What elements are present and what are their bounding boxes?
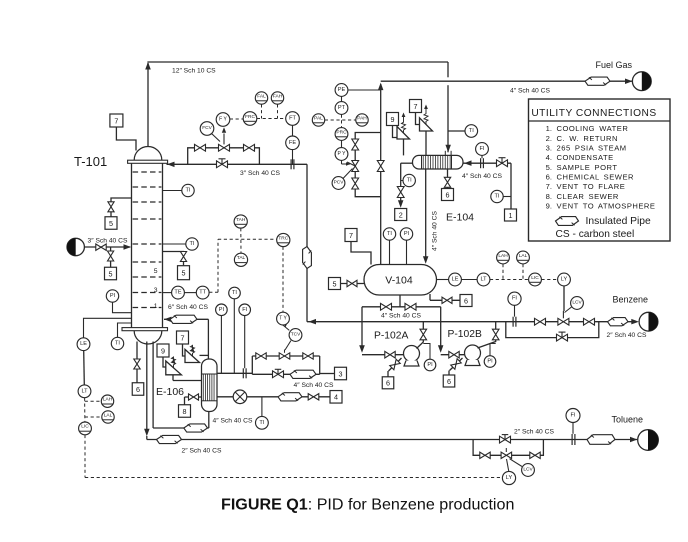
control valve TCV <box>279 341 291 360</box>
svg-text:PE: PE <box>338 87 346 93</box>
check valve pump B <box>492 329 499 340</box>
valve pump B drain <box>451 359 461 369</box>
legend insulated pipe symbol <box>556 217 579 226</box>
E-106 shell drain wire <box>185 397 202 405</box>
svg-text:FRC: FRC <box>245 114 255 120</box>
utility square 6 pump A <box>382 377 394 389</box>
V-104 drain wire <box>430 294 460 300</box>
globe valve steam bypass <box>273 369 284 377</box>
sample square 5 mid <box>178 266 190 280</box>
wire from square 7 to column top <box>116 127 136 151</box>
svg-text:P-102A: P-102A <box>374 330 408 341</box>
instrument PAH <box>356 114 368 126</box>
insulated pipe symbol condensate <box>278 393 302 401</box>
svg-text:5: 5 <box>154 268 158 275</box>
svg-text:C. W. RETURN: C. W. RETURN <box>557 134 619 143</box>
column T-101 vent riser wire <box>145 62 151 147</box>
instrument LY toluene <box>507 459 509 471</box>
svg-text:8: 8 <box>183 407 187 416</box>
svg-text:LAH: LAH <box>103 397 113 403</box>
svg-text:SAMPLE PORT: SAMPLE PORT <box>557 163 618 172</box>
instrument LAL column <box>102 411 114 423</box>
svg-text:4″ Sch 40 CS: 4″ Sch 40 CS <box>213 418 253 425</box>
utility square 6 pump B <box>443 375 455 387</box>
svg-text:9.: 9. <box>546 201 552 210</box>
lower sample wire <box>110 247 112 267</box>
svg-text:PT: PT <box>338 105 346 111</box>
instrument PI pump B <box>490 344 496 356</box>
svg-text:TCV: TCV <box>291 332 301 338</box>
instrument TRC <box>277 233 290 246</box>
pump B drain wire <box>449 358 463 375</box>
signal dashed LIC-LY V-104 <box>541 279 557 281</box>
instrument TI V-104 <box>389 240 391 264</box>
valve pump B suction <box>449 351 459 358</box>
svg-text:TI: TI <box>387 231 392 237</box>
svg-text:1.: 1. <box>546 124 552 133</box>
svg-text:FE: FE <box>289 140 296 146</box>
control valve FCV on bypass <box>219 134 230 152</box>
orifice benzene FI <box>513 317 516 327</box>
PSV square 9 at E-104 <box>387 113 399 126</box>
svg-text:1: 1 <box>154 303 158 310</box>
gate valve on PCV main vertical <box>377 161 384 172</box>
gate valve suction B header <box>405 303 416 310</box>
svg-text:12″ Sch 10 CS: 12″ Sch 10 CS <box>172 68 216 75</box>
toluene bypass wire <box>473 440 543 456</box>
gate valve bypass right <box>244 144 255 151</box>
svg-text:3″ Sch 40 CS: 3″ Sch 40 CS <box>240 170 280 177</box>
utility square 7 V-104 flare <box>345 229 357 242</box>
svg-text:2.: 2. <box>546 134 552 143</box>
svg-text:6: 6 <box>447 377 451 386</box>
insulated pipe symbol steam <box>290 370 316 378</box>
insulated pipe symbol benzene <box>608 318 629 326</box>
reflux riser wire <box>306 164 308 321</box>
PSV 7 inlet wire <box>425 131 427 155</box>
svg-text:4″ Sch 40 CS: 4″ Sch 40 CS <box>462 173 502 180</box>
svg-text:6: 6 <box>386 379 390 388</box>
mid sample wire <box>163 252 184 266</box>
valve column drain <box>134 359 140 369</box>
nozzle flange at E-104 vapor inlet <box>445 151 451 156</box>
svg-text:FI: FI <box>242 307 247 313</box>
svg-text:CLEAR SEWER: CLEAR SEWER <box>557 192 619 201</box>
svg-text:LE: LE <box>452 277 459 283</box>
svg-text:Benzene: Benzene <box>613 294 649 304</box>
feed line wire <box>84 244 131 250</box>
svg-text:FAL: FAL <box>257 93 266 99</box>
wire square5 to V-104 <box>341 283 365 285</box>
svg-text:V-104: V-104 <box>385 274 413 286</box>
svg-text:TE: TE <box>174 290 181 296</box>
instrument TI column upper <box>163 190 182 192</box>
svg-text:PAL: PAL <box>314 115 323 121</box>
vessel V-104 <box>364 265 437 296</box>
instrument LE column <box>84 318 132 338</box>
instrument TI steam <box>233 299 235 374</box>
cw riser to utility 1 wire <box>503 163 511 209</box>
svg-text:6: 6 <box>446 190 450 199</box>
svg-text:T Y: T Y <box>279 316 287 322</box>
vapor return to column wire <box>164 317 208 323</box>
cooling water inlet wire <box>464 160 512 166</box>
svg-text:LE: LE <box>80 341 87 347</box>
svg-text:Fuel Gas: Fuel Gas <box>596 60 633 70</box>
signal dashed to LAL <box>85 416 102 418</box>
V-104 bottom outlet wire <box>362 295 441 307</box>
pump A drain wire <box>388 358 402 377</box>
gate valve feed <box>96 244 106 250</box>
svg-text:LAL: LAL <box>104 412 113 418</box>
svg-text:TAL: TAL <box>237 255 246 261</box>
wire LY to LCV benzene <box>563 286 565 311</box>
instrument TI condensate <box>256 416 269 429</box>
svg-text:TI: TI <box>232 290 237 296</box>
gate valve cw inlet <box>497 158 508 167</box>
svg-text:3.: 3. <box>546 144 552 153</box>
instrument FT <box>286 112 300 126</box>
column bottom drain wire <box>136 342 138 384</box>
pump P-102B <box>465 345 481 366</box>
instrument PY <box>341 140 343 147</box>
PSV square 9 at E-106 <box>157 344 169 357</box>
condensate to V-104 wire <box>423 169 429 264</box>
instrument FCV <box>211 133 220 142</box>
svg-text:Toluene: Toluene <box>612 415 644 425</box>
instrument TI column bottom <box>118 323 132 337</box>
pump A suction drop wire <box>359 307 365 353</box>
instrument LT column <box>78 385 91 398</box>
E-106 vapor return riser wire <box>207 319 209 359</box>
instrument PI pump A <box>423 344 430 360</box>
gate valve PCV loop upper <box>352 139 359 150</box>
instrument TY <box>283 323 289 331</box>
PCV let-down main vertical wire <box>380 84 382 265</box>
valve lower sample <box>108 251 114 261</box>
column T-101 bottom dome <box>134 331 162 344</box>
insulated pipe symbol vapor return <box>170 315 197 323</box>
valve V-104 drain <box>442 297 452 303</box>
svg-text:4: 4 <box>334 393 338 402</box>
svg-text:LCV: LCV <box>572 300 582 306</box>
valve mid sample <box>180 252 186 262</box>
steam station loop wire <box>252 356 334 374</box>
instrument PI column left <box>113 302 132 313</box>
instrument TT <box>196 286 209 299</box>
instrument FRC <box>243 112 257 126</box>
column T-101 bottom flange <box>122 328 168 331</box>
valve on E-104 drain <box>444 177 450 187</box>
signal dashed TAH-TAL <box>240 228 242 253</box>
instrument LAH V-104 <box>497 251 510 264</box>
svg-text:6: 6 <box>136 385 140 394</box>
signal dashed FY-FRC <box>230 118 243 120</box>
PSV square 7 at E-104 <box>410 100 422 113</box>
gate valve steam upper left <box>256 353 266 359</box>
svg-text:5: 5 <box>109 219 113 228</box>
svg-text:TI: TI <box>190 241 195 247</box>
svg-text:7: 7 <box>414 102 418 111</box>
svg-text:1: 1 <box>509 211 513 220</box>
svg-text:PI: PI <box>487 359 493 365</box>
signal dashed FAH drop <box>277 104 279 118</box>
svg-text:VENT TO FLARE: VENT TO FLARE <box>557 182 626 191</box>
instrument TI cw return <box>403 174 415 186</box>
battery limit fuel gas <box>632 72 651 91</box>
svg-text:PI: PI <box>427 362 433 368</box>
instrument LIC V-104 <box>529 273 542 286</box>
svg-text:265 PSIA STEAM: 265 PSIA STEAM <box>557 144 627 153</box>
svg-text:TI: TI <box>259 420 264 426</box>
svg-text:E-106: E-106 <box>156 386 184 398</box>
svg-text:LCV: LCV <box>523 467 533 473</box>
gate valve steam upper right <box>303 353 313 359</box>
check valve pump A <box>420 329 427 340</box>
PSV 9 inlet wire <box>403 139 405 155</box>
gate valve toluene bypass right <box>530 452 540 458</box>
svg-text:4″ Sch 40 CS: 4″ Sch 40 CS <box>381 312 421 319</box>
PSV square 7 at E-106 <box>177 331 189 344</box>
svg-text:2″ Sch 40 CS: 2″ Sch 40 CS <box>182 447 222 454</box>
instrument PT <box>341 96 343 101</box>
instrument FY <box>216 113 230 127</box>
instrument FI cooling water <box>481 155 483 158</box>
svg-text:4″ Sch 40 CS: 4″ Sch 40 CS <box>294 382 334 389</box>
svg-text:3: 3 <box>339 369 343 378</box>
instrument LAH column <box>101 395 113 407</box>
instrument PE <box>348 89 381 91</box>
gate valve benzene 2 <box>584 318 595 325</box>
instrument PAL <box>312 114 324 126</box>
svg-text:TRC: TRC <box>278 235 288 241</box>
pump B suction drop wire <box>438 307 444 353</box>
svg-text:LIC: LIC <box>81 424 89 430</box>
column T-101 shell <box>132 162 163 330</box>
instrument TI cw supply <box>491 190 503 202</box>
utility square 1 <box>505 209 517 221</box>
valve upper sample <box>108 202 114 212</box>
svg-text:4.: 4. <box>546 153 552 162</box>
svg-text:2: 2 <box>399 210 403 219</box>
overhead vapor line wire <box>147 61 448 63</box>
signal dashed TT to TRC <box>209 239 277 292</box>
heat exchanger E-104 shell <box>413 155 464 169</box>
orifice plate FE on reflux line <box>291 159 294 169</box>
instrument FI benzene <box>514 305 516 316</box>
instrument TAH <box>234 215 247 228</box>
column trays dashed <box>133 172 162 308</box>
bypass loop wire over reflux line <box>188 148 260 165</box>
svg-text:5.: 5. <box>546 163 552 172</box>
gate valve toluene bypass left <box>480 452 490 458</box>
svg-text:4″ Sch 40 CS: 4″ Sch 40 CS <box>432 211 439 251</box>
svg-text:FI: FI <box>512 296 517 302</box>
svg-text:CHEMICAL SEWER: CHEMICAL SEWER <box>557 172 635 181</box>
heat exchanger E-106 shell <box>202 359 218 412</box>
signal dashed TRC to TY <box>282 247 284 313</box>
svg-text:TI: TI <box>186 188 191 194</box>
svg-text:6.: 6. <box>546 172 552 181</box>
instrument PRC <box>335 128 348 141</box>
fuel gas line wire 4in Sch 40 CS <box>378 79 633 91</box>
instrument FI toluene <box>572 423 574 434</box>
signal dashed LT-LIC V-104 <box>490 279 529 281</box>
svg-text:PI: PI <box>219 307 225 313</box>
svg-text:CONDENSATE: CONDENSATE <box>557 153 614 162</box>
svg-text:7.: 7. <box>546 182 552 191</box>
signal dashed LAH drop <box>502 264 504 280</box>
instrument FE <box>292 125 294 136</box>
E-104 drain wire <box>447 169 449 189</box>
svg-text:2″ Sch 40 CS: 2″ Sch 40 CS <box>514 429 554 436</box>
svg-text:PI: PI <box>110 293 116 299</box>
instrument TE <box>163 292 172 294</box>
svg-text:6″ Sch 40 CS: 6″ Sch 40 CS <box>168 304 208 311</box>
valve pump A drain <box>390 359 400 369</box>
svg-text:FIGURE Q1: PID for Benzene pro: FIGURE Q1: PID for Benzene production <box>221 496 514 514</box>
svg-text:7: 7 <box>181 333 185 342</box>
gate valve toluene main <box>500 435 511 443</box>
utility square 6 E-104 drain <box>442 189 454 201</box>
utility square 7 top left <box>110 114 123 127</box>
PCV station loop wire <box>355 133 381 197</box>
condensate line wire <box>217 397 330 417</box>
pump A discharge wire <box>417 322 424 349</box>
gate valve condensate <box>308 394 319 400</box>
svg-text:FT: FT <box>289 116 296 122</box>
utility connections legend box <box>529 99 671 241</box>
pump B suction wire <box>441 354 465 356</box>
svg-text:9: 9 <box>161 346 165 355</box>
globe valve benzene bypass <box>557 332 568 341</box>
instrument PCV circle <box>343 169 353 179</box>
pump P-102A <box>404 346 420 367</box>
svg-text:PRC: PRC <box>336 129 347 135</box>
svg-text:LY: LY <box>561 277 568 283</box>
utility square 2 <box>395 209 407 221</box>
instrument PI V-104 <box>406 240 408 264</box>
signal dashed FAL drop <box>261 104 263 118</box>
benzene bypass wire <box>506 322 599 338</box>
svg-text:TAH: TAH <box>236 217 246 223</box>
signal dashed PT-PRC <box>341 115 343 128</box>
gate valve PCV loop lower <box>352 178 359 189</box>
insulated pipe symbol toluene 1 <box>157 435 182 443</box>
battery limit feed <box>67 238 84 255</box>
gate valve cw return <box>397 187 404 198</box>
svg-text:PI: PI <box>404 231 410 237</box>
battery limit toluene <box>638 430 659 451</box>
utility square 8 <box>179 405 191 418</box>
svg-text:TT: TT <box>199 290 206 296</box>
sample square 5 V-104 <box>329 278 341 290</box>
orifice steam FI <box>243 368 246 378</box>
svg-text:FI: FI <box>571 413 576 419</box>
gate valve suction A header <box>381 303 392 310</box>
column T-101 top dome <box>134 147 162 161</box>
orifice on cw line <box>481 158 484 168</box>
wire TE-TT <box>184 292 196 294</box>
toluene downcomer wire <box>144 342 150 440</box>
instrument PI steam <box>220 316 222 374</box>
valve E-106 drain <box>189 394 199 400</box>
utility square 3 <box>335 367 347 380</box>
svg-text:P Y: P Y <box>338 151 347 157</box>
signal PY to valve <box>342 160 351 165</box>
svg-text:PCV: PCV <box>334 180 345 186</box>
E-104 vapor feed drop wire <box>445 62 451 152</box>
svg-text:3″ Sch 40 CS: 3″ Sch 40 CS <box>88 238 128 245</box>
svg-text:P-102B: P-102B <box>448 329 482 340</box>
svg-text:FAH: FAH <box>273 93 283 99</box>
instrument LT V-104 <box>461 279 477 281</box>
upper sample wire <box>111 198 132 217</box>
gate valve bypass left <box>195 144 206 151</box>
benzene product header wire <box>307 319 639 325</box>
svg-text:UTILITY CONNECTIONS: UTILITY CONNECTIONS <box>531 108 656 119</box>
instrument FI steam <box>244 316 246 369</box>
pump B discharge wire <box>478 322 496 348</box>
signal dashed PAL-PAH <box>325 119 356 121</box>
PSV 9 E-106 inlet wire <box>173 375 202 381</box>
svg-text:5: 5 <box>182 269 186 278</box>
globe valve on reflux line <box>217 159 228 168</box>
instrument TI column mid <box>163 243 186 245</box>
svg-text:LT: LT <box>81 388 88 394</box>
instrument TI on vapor line <box>448 130 465 132</box>
svg-text:LY: LY <box>506 475 513 481</box>
instrument FAH <box>271 92 283 104</box>
svg-text:Insulated Pipe: Insulated Pipe <box>586 216 652 227</box>
steam line wire <box>217 372 252 374</box>
svg-text:TI: TI <box>495 194 500 200</box>
insulated pipe symbol on riser <box>303 247 312 269</box>
wire FE to orifice <box>292 150 294 165</box>
orifice toluene FI <box>572 434 575 445</box>
svg-text:TI: TI <box>407 178 412 184</box>
insulated pipe symbol fuel gas <box>585 77 610 85</box>
instrument TAL <box>234 253 247 266</box>
control valve PCV <box>347 161 359 172</box>
signal dashed LIC to LY route <box>85 435 502 478</box>
svg-text:E-104: E-104 <box>446 212 474 224</box>
svg-text:2″ Sch 40 CS: 2″ Sch 40 CS <box>607 332 647 339</box>
utility square 6 V-104 drain <box>460 295 472 307</box>
instrument FAL <box>255 92 267 104</box>
insulated pipe symbol reboiler feed <box>184 424 208 432</box>
valve V-104 sample <box>347 280 357 286</box>
svg-text:CS - carbon steel: CS - carbon steel <box>556 229 635 240</box>
svg-text:5: 5 <box>333 279 337 288</box>
steam trap <box>233 390 247 404</box>
battery limit benzene <box>639 312 658 331</box>
utility square 4 <box>330 391 342 404</box>
svg-text:TI: TI <box>115 341 120 347</box>
signal dashed LAL drop <box>522 264 524 280</box>
control valve LCV benzene <box>558 311 569 325</box>
column T-101 top flange <box>128 160 168 163</box>
svg-text:3: 3 <box>154 287 158 294</box>
svg-text:COOLING WATER: COOLING WATER <box>557 124 629 133</box>
control valve LCV toluene <box>501 448 512 459</box>
svg-text:7: 7 <box>349 231 353 240</box>
svg-text:F Y: F Y <box>219 117 227 123</box>
pump A suction wire <box>362 354 404 356</box>
sample square 5 upper <box>105 217 117 230</box>
instrument LCV toluene <box>510 459 523 467</box>
valve pump A suction <box>385 351 395 358</box>
